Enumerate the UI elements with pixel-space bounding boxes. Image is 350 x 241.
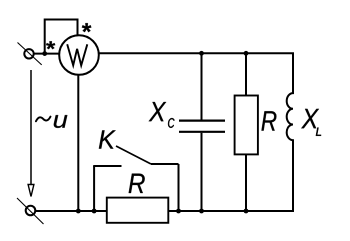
capacitor branch: top lead — [201, 53, 203, 119]
voltage arrow line — [28, 70, 34, 197]
switch K: left vertical — [93, 166, 95, 211]
capacitor bottom lead — [201, 133, 203, 211]
label K — [99, 130, 116, 148]
polarity asterisk top — [82, 23, 92, 32]
top wire — [98, 52, 294, 54]
switch K: blade — [116, 146, 151, 164]
polarity asterisk left — [46, 41, 55, 49]
node dot capacitor bottom — [199, 209, 204, 214]
label X_C — [149, 102, 175, 128]
resistor R vertical box — [235, 96, 258, 155]
node dot at top-left junction — [42, 51, 47, 56]
wire from wattmeter down to bottom wire — [77, 74, 79, 211]
resistor R horizontal box — [107, 198, 169, 223]
label R above box — [129, 174, 145, 193]
wire current-coil loop above wattmeter — [45, 20, 78, 54]
node dot resistor top — [244, 51, 249, 56]
switch K: right lead — [151, 163, 179, 165]
resistor branch: bottom lead — [245, 154, 247, 211]
label u — [54, 115, 68, 128]
node dot bottom right of R box — [176, 209, 181, 214]
wattmeter U1 circle — [59, 35, 99, 75]
node dot capacitor top — [199, 51, 204, 56]
wattmeter W letter — [67, 44, 87, 65]
label R right of vertical box — [262, 111, 277, 130]
bottom wire — [35, 210, 295, 212]
label ~ (AC sign) — [36, 117, 51, 122]
node dot bottom left of R box — [92, 209, 97, 214]
resistor branch: top lead — [245, 53, 247, 96]
switch K: right vertical — [178, 164, 180, 211]
wire top terminal to wattmeter — [34, 53, 61, 55]
label X_L — [301, 109, 321, 136]
inductor X_L branch with coil — [287, 53, 293, 211]
node dot resistor bottom — [244, 209, 249, 214]
terminal bottom-left — [17, 198, 44, 224]
switch K: left lead — [93, 165, 121, 167]
node dot bottom under W — [76, 209, 81, 214]
capacitor plates — [179, 119, 225, 121]
terminal top-left — [18, 43, 42, 65]
